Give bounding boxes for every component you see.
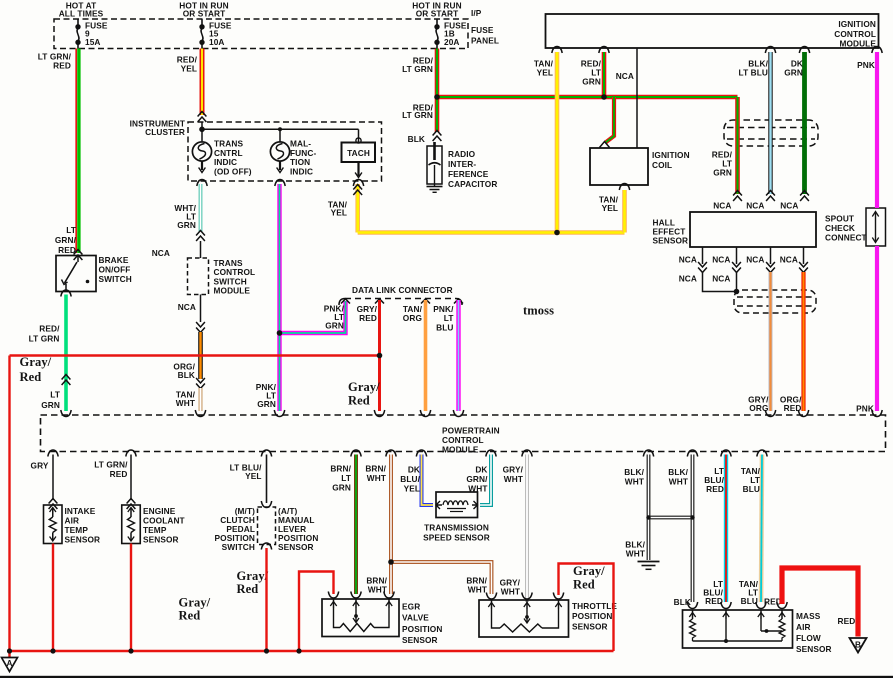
svg-text:Gray/: Gray/ [573, 564, 605, 578]
svg-text:GRN: GRN [41, 400, 60, 410]
svg-text:SENSOR: SENSOR [278, 542, 314, 552]
PCM bottom pin connectors [48, 450, 767, 457]
label TAN/YEL at ICM [534, 59, 554, 78]
label LT GRN [41, 390, 60, 411]
wire TAN/YEL to coil [622, 190, 627, 233]
hall input connectors [733, 191, 809, 202]
label BLK/WHT 1 [624, 467, 644, 486]
svg-text:WHT: WHT [367, 473, 386, 483]
svg-text:NCA: NCA [780, 255, 798, 265]
wire BRN/WHT to EGR [389, 455, 393, 595]
svg-text:POSITION: POSITION [402, 624, 442, 634]
svg-text:TACH: TACH [347, 148, 370, 158]
svg-text:OR START: OR START [183, 8, 226, 18]
svg-text:SENSOR: SENSOR [143, 535, 179, 545]
svg-text:IGNITION: IGNITION [838, 19, 876, 29]
svg-text:WHT: WHT [468, 483, 487, 493]
wire PNK spout to PCM [875, 246, 879, 411]
wire RED/LT GRN branch to ignition coil [606, 97, 615, 143]
wire LT GRN/RED wire to coolant sensor [130, 455, 132, 501]
label NCA below tcsm [178, 302, 196, 312]
chassis ground BLK/WHT [638, 562, 660, 570]
svg-text:NCA: NCA [712, 255, 730, 265]
label DK GRN [784, 59, 803, 78]
label TAN/YEL at coil [599, 195, 619, 214]
label LT BLU/RED up [704, 466, 724, 494]
wire GRY wire [52, 455, 54, 501]
svg-text:GRN: GRN [332, 482, 351, 492]
spout check connector box [866, 208, 886, 246]
svg-text:NCA: NCA [178, 302, 196, 312]
tach box [342, 138, 376, 178]
label ORG/RED [780, 395, 802, 414]
svg-text:(OD OFF): (OD OFF) [214, 166, 252, 176]
svg-text:BLU: BLU [436, 322, 453, 332]
svg-text:THROTTLE: THROTTLE [572, 601, 617, 611]
label Gray/Red dlc [348, 380, 380, 408]
svg-text:DATA LINK CONNECTOR: DATA LINK CONNECTOR [352, 285, 453, 295]
label LT GRN/RED pcm [94, 460, 128, 479]
svg-text:ENGINE: ENGINE [143, 506, 176, 516]
label BRN/WHT tps [466, 576, 487, 595]
connector on capacitor lead [433, 131, 442, 142]
wire TAN/LT BLU to MAF [761, 455, 762, 603]
label TAN/LT BLU up [741, 466, 761, 494]
connector into engine coolant temp sensor [127, 499, 136, 510]
svg-text:NCA: NCA [616, 71, 634, 81]
connector below clutch switch [261, 543, 271, 550]
wire gray/red left vertical [8, 356, 10, 652]
svg-text:GRY: GRY [31, 461, 49, 471]
label NCA at ICM [616, 71, 634, 81]
wire ORG/BLK [198, 332, 203, 379]
svg-text:NCA: NCA [152, 248, 170, 258]
connector capsule above hall sensor [724, 120, 818, 146]
TPS pin connectors [486, 593, 563, 600]
svg-text:MODULE: MODULE [214, 286, 251, 296]
svg-text:TEMP: TEMP [143, 525, 167, 535]
cluster internal bus [202, 122, 359, 143]
cluster exit connectors [197, 180, 364, 187]
ignition control module box [546, 14, 879, 48]
label IGNITION CONTROL MODULE [834, 19, 876, 49]
label RED/YEL [177, 55, 198, 74]
svg-text:NCA: NCA [746, 255, 764, 265]
wire red tail intake [52, 544, 54, 652]
svg-text:TEMP: TEMP [65, 525, 89, 535]
label HOT IN RUN OR START (fuse1B) [412, 0, 461, 18]
label LT BLU/YEL [230, 463, 262, 482]
svg-text:Gray/: Gray/ [179, 596, 211, 610]
svg-text:FLOW: FLOW [796, 633, 821, 643]
svg-text:CONNECT: CONNECT [825, 232, 867, 242]
svg-text:CAPACITOR: CAPACITOR [448, 179, 497, 189]
label MASS AIR FLOW SENSOR [796, 611, 832, 654]
label NCA hall1 [713, 201, 731, 211]
label INSTRUMENT CLUSTER [130, 119, 185, 138]
fuse F9 15A [76, 19, 108, 49]
transmission speed sensor box [436, 492, 478, 518]
scan border bottom [0, 676, 893, 678]
svg-text:RED: RED [705, 596, 723, 606]
label RED/LT GRN mid [402, 103, 433, 121]
label TRANSMISSION SPEED SENSOR [423, 523, 490, 543]
svg-text:SPEED SENSOR: SPEED SENSOR [423, 533, 490, 543]
wire TAN/YEL bus [358, 230, 625, 235]
PCM top pin connectors [61, 410, 882, 417]
wire BLK/WHT ground leg [647, 455, 651, 561]
svg-text:RED/: RED/ [39, 324, 60, 334]
label HOT AT ALL TIMES [59, 0, 104, 18]
label BLK/LT BLU [739, 59, 769, 78]
svg-text:WHT: WHT [626, 548, 645, 558]
svg-text:FERENCE: FERENCE [448, 169, 489, 179]
svg-text:WHT: WHT [625, 476, 644, 486]
label ORG/BLK [173, 362, 195, 381]
svg-text:RED: RED [110, 469, 128, 479]
wire red tps feed [559, 564, 614, 652]
label (M/T) CLUTCH PEDAL POSITION SWITCH [215, 506, 256, 552]
svg-text:LT BLU: LT BLU [739, 68, 768, 78]
svg-text:AIR: AIR [65, 516, 80, 526]
svg-text:I/P: I/P [471, 8, 482, 18]
ground B [850, 638, 867, 653]
svg-text:Red: Red [348, 394, 370, 408]
label GRY/WHT upper [503, 465, 524, 484]
svg-text:COOLANT: COOLANT [143, 516, 185, 526]
instrument cluster box [188, 122, 382, 181]
svg-text:NCA: NCA [780, 201, 798, 211]
label NCA tcsm-top [152, 248, 170, 258]
inline connector LT GRN [62, 375, 71, 386]
label TRANS CONTROL SWITCH MODULE [214, 258, 256, 296]
label THROTTLE POSITION SENSOR [572, 601, 617, 631]
indicator lamp malfunction indic [270, 142, 289, 173]
label PNK/LT GRN at PCM [256, 382, 277, 409]
svg-text:OR START: OR START [416, 8, 459, 18]
svg-text:YEL: YEL [602, 203, 618, 213]
svg-text:15A: 15A [85, 37, 101, 47]
wire LT BLU/RED to MAF [724, 455, 728, 603]
bus junctions [0, 0, 1, 1]
wire PNK/LT GRN branch to DLC [280, 301, 346, 333]
svg-text:LT GRN: LT GRN [402, 110, 433, 120]
label LT GRN/RED [38, 52, 72, 71]
wire TAN/ORG dlc to PCM [424, 300, 428, 411]
indicator lamp trans cntrl indic [192, 142, 211, 173]
label GRY [31, 461, 49, 471]
connector below brake switch [61, 290, 71, 297]
svg-text:EGR: EGR [402, 602, 420, 612]
label Gray/Red mid [179, 596, 211, 623]
label ENGINE COOLANT TEMP SENSOR [143, 506, 185, 545]
hall effect sensor box [690, 212, 816, 247]
svg-text:WHT: WHT [669, 476, 688, 486]
svg-text:CLUSTER: CLUSTER [145, 127, 185, 137]
label BRAKE ON/OFF SWITCH [99, 255, 132, 284]
wire WHT/LT GRN lamp to chevrons [199, 184, 203, 232]
EGR pin connectors [328, 592, 394, 599]
label GRY/RED [357, 304, 378, 323]
connector into intake air temp sensor [49, 499, 58, 510]
label PNK/LT BLU [433, 304, 454, 332]
svg-text:YEL: YEL [537, 68, 553, 78]
svg-text:GRN: GRN [713, 168, 732, 178]
label TRANS CNTRL INDIC (OD OFF) [214, 139, 252, 177]
label Gray/Red clutch [237, 569, 269, 596]
engine coolant temp sensor box [122, 505, 141, 544]
svg-text:Gray/: Gray/ [20, 355, 52, 369]
svg-text:NCA: NCA [679, 255, 697, 265]
label EGR VALVE POSITION SENSOR [402, 602, 442, 646]
svg-text:RED: RED [706, 484, 724, 494]
wire BLK/LT BLU ICM to hall [768, 52, 772, 194]
svg-text:YEL: YEL [331, 208, 347, 218]
wire RED/YEL fuse15 to cluster [200, 49, 205, 116]
svg-text:NCA: NCA [746, 201, 764, 211]
connector into instrument cluster [198, 112, 207, 123]
svg-text:RED: RED [359, 313, 377, 323]
mass air flow sensor box [683, 610, 793, 648]
label SPOUT CHECK CONNECT [825, 214, 867, 243]
I/P fuse panel box [54, 19, 468, 49]
label LT BLU/RED dn [703, 579, 723, 606]
svg-text:PNK: PNK [857, 60, 875, 70]
wire red tail clutch [265, 548, 267, 651]
EGR valve position sensor box [322, 599, 399, 637]
inline connector WHT/LT GRN [196, 231, 205, 242]
label POWERTRAIN CONTROL MODULE [442, 426, 500, 455]
ground A [2, 651, 18, 672]
connector into clutch position switch [261, 501, 271, 508]
NCA wire ICM to coil [636, 48, 638, 148]
connector under ignition coil [619, 184, 629, 191]
svg-text:SENSOR: SENSOR [65, 535, 101, 545]
label PNK/LT GRN at DLC [324, 304, 345, 331]
wire gray/red bottom bus [10, 650, 614, 652]
svg-text:YEL: YEL [181, 64, 197, 74]
svg-text:RED: RED [58, 245, 76, 255]
label HALL EFFECT SENSOR [653, 218, 689, 246]
svg-text:WHT: WHT [468, 584, 487, 594]
wire RED/LT GRN horizontal bus y97 [437, 95, 738, 100]
svg-text:BLU: BLU [741, 596, 758, 606]
svg-text:Gray/: Gray/ [237, 569, 269, 583]
svg-text:GRN: GRN [325, 320, 344, 330]
label PNK at PCM [856, 404, 874, 414]
hall bottom pins [698, 247, 808, 273]
wire TAN/YEL from ICM [555, 52, 560, 233]
clutch pedal position switch box [258, 507, 276, 545]
label GRY/ORG [748, 395, 769, 414]
svg-text:FUSE: FUSE [471, 25, 494, 35]
inline connector TAN/YEL tach [353, 185, 362, 196]
wire PNK ICM to spout [875, 52, 879, 208]
powertrain control module box [41, 415, 886, 452]
inline connector TAN/WHT top [196, 378, 205, 389]
svg-text:GRN: GRN [257, 399, 276, 409]
svg-text:BLK: BLK [178, 370, 195, 380]
svg-text:INDIC: INDIC [290, 166, 313, 176]
label NCA hb2b [712, 274, 730, 284]
svg-text:MODULE: MODULE [839, 39, 876, 49]
label BLK at MAF [674, 597, 691, 607]
wire BRN/LT GRN to EGR [354, 455, 358, 595]
label (A/T) MANUAL LEVER POSITION SENSOR [278, 506, 318, 552]
svg-text:A: A [6, 658, 12, 668]
label IGNITION COIL [652, 150, 690, 170]
wire TAN/YEL tach down [355, 184, 360, 233]
ground at capacitor [427, 184, 443, 192]
svg-text:POSITION: POSITION [572, 611, 612, 621]
radio interference capacitor [427, 142, 442, 184]
fuse F1B 20A [435, 19, 467, 49]
label MAL-FUNCTION INDIC [290, 139, 316, 177]
svg-text:BLU: BLU [743, 484, 760, 494]
label NCA hb1 [679, 255, 697, 265]
svg-text:GRN: GRN [177, 220, 196, 230]
label TAN/YEL tach [328, 200, 348, 218]
svg-text:VALVE: VALVE [402, 613, 429, 623]
svg-text:GRN/: GRN/ [55, 235, 77, 245]
wire RED/LT GRN brake to PCM [64, 295, 68, 412]
svg-text:GRN: GRN [582, 77, 601, 87]
label BRN/WHT [365, 464, 386, 483]
wire LT GRN/RED fuse9 to brake switch [76, 49, 79, 254]
svg-text:NCA: NCA [713, 201, 731, 211]
label RED/LT GRN at ICM [581, 59, 602, 87]
svg-text:RADIO: RADIO [448, 149, 476, 159]
svg-text:SENSOR: SENSOR [402, 635, 438, 645]
connector into brake switch [74, 250, 83, 261]
ignition coil box [590, 148, 648, 185]
wire BLK/WHT to MAF [691, 455, 695, 603]
svg-text:SWITCH: SWITCH [99, 274, 132, 284]
svg-text:RED: RED [838, 616, 856, 626]
wire NCA lead to trans ctrl switch module [200, 241, 202, 258]
wire BRN/WHT branch to TPS [391, 562, 492, 594]
fuse F15 10A [200, 19, 232, 49]
label DK GRN/WHT [466, 465, 488, 494]
svg-text:Red: Red [20, 370, 42, 384]
wire PNK/LT GRN malfunction to PCM [277, 184, 281, 411]
label TAN/LT BLU dn [739, 579, 759, 606]
label RED/LT GRN below brake [29, 324, 60, 344]
NCA jumper below hall [703, 272, 737, 292]
MAF pin connectors [687, 602, 787, 609]
svg-text:ORG: ORG [403, 313, 422, 323]
wire RED/LT GRN to hall [735, 97, 740, 194]
label INTAKE AIR TEMP SENSOR [65, 506, 101, 545]
svg-text:Red: Red [179, 609, 201, 623]
wire RED/LT GRN fuse1B down [435, 49, 440, 133]
svg-text:LT: LT [66, 225, 76, 235]
wire gray/red horizontal [10, 354, 380, 356]
wire DK BLU/YEL to trans speed sensor [422, 455, 434, 506]
wire GRY/WHT to TPS [525, 455, 529, 603]
svg-text:COIL: COIL [652, 160, 672, 170]
label NCA hb3 [746, 255, 764, 265]
svg-text:Red: Red [573, 578, 595, 592]
throttle position sensor box [479, 600, 569, 637]
label Gray/Red left [20, 355, 52, 384]
label DK BLU/YEL [400, 465, 420, 494]
svg-text:YEL: YEL [245, 471, 261, 481]
wire LT BLU/YEL wire [266, 455, 268, 504]
svg-text:GRN: GRN [784, 68, 803, 78]
svg-text:MODULE: MODULE [442, 444, 479, 454]
wire red tail coolant [130, 544, 132, 652]
inline connector ORG/BLK top [196, 322, 205, 333]
label RADIO INTERFERENCE CAPACITOR [448, 149, 497, 189]
intake air temp sensor box [44, 505, 63, 544]
svg-text:AIR: AIR [796, 622, 811, 632]
svg-text:LT GRN: LT GRN [402, 64, 433, 74]
svg-text:WHT: WHT [504, 474, 523, 484]
label PNK at ICM [857, 60, 875, 70]
svg-text:BLK: BLK [408, 134, 425, 144]
svg-text:ALL TIMES: ALL TIMES [59, 8, 104, 18]
connector capsule below hall [734, 290, 816, 313]
svg-text:PNK: PNK [856, 404, 874, 414]
svg-text:10A: 10A [209, 37, 225, 47]
svg-text:WHT: WHT [176, 398, 195, 408]
svg-text:B: B [855, 640, 861, 650]
svg-text:SENSOR: SENSOR [572, 621, 608, 631]
label HOT IN RUN OR START (fuse15) [179, 0, 228, 18]
wire NCA lead below tcsm [200, 295, 202, 323]
label NCA hall3 [780, 201, 798, 211]
label BLK/WHT 3 [625, 540, 645, 559]
wire ORG/RED hall to PCM [801, 272, 805, 411]
svg-text:TRANSMISSION: TRANSMISSION [424, 523, 489, 533]
label BRN/LT GRN [330, 464, 351, 493]
svg-text:PANEL: PANEL [471, 36, 499, 46]
svg-text:LT GRN: LT GRN [29, 334, 60, 344]
label NCA hb4 [780, 255, 798, 265]
svg-text:NCA: NCA [712, 274, 730, 284]
label RED/LT GRN [402, 56, 433, 75]
trans control switch module box [188, 258, 209, 295]
svg-text:LT: LT [50, 390, 60, 400]
label NCA hall2 [746, 201, 764, 211]
svg-text:MASS: MASS [796, 611, 821, 621]
svg-text:IGNITION: IGNITION [652, 150, 690, 160]
svg-text:tmoss: tmoss [523, 304, 554, 318]
svg-text:WHT: WHT [501, 586, 520, 596]
label RED/LT GRN at hall [712, 150, 733, 178]
label BRN/WHT egr [366, 576, 387, 595]
svg-text:Gray/: Gray/ [348, 380, 380, 394]
wire DK GRN ICM to hall [802, 52, 807, 194]
label TAN/WHT [176, 390, 196, 409]
label TAN/ORG [403, 304, 423, 323]
svg-text:Red: Red [237, 582, 259, 596]
svg-text:SENSOR: SENSOR [796, 644, 832, 654]
wire TAN/WHT to PCM [199, 388, 203, 411]
brake on/off switch box [56, 256, 96, 292]
label WHT/LT GRN [174, 203, 196, 230]
wire DK GRN/WHT to trans speed sensor [480, 455, 491, 506]
svg-text:INTAKE: INTAKE [65, 506, 96, 516]
wire GRY/ORG hall to PCM [769, 272, 773, 411]
wire BLK/WHT tie [649, 516, 693, 520]
label NCA hb2 [712, 255, 730, 265]
label NCA hb1b [679, 274, 697, 284]
svg-text:SWITCH: SWITCH [222, 542, 255, 552]
wire PNK/LT BLU dlc to PCM [456, 300, 460, 411]
svg-text:RED: RED [53, 61, 71, 71]
